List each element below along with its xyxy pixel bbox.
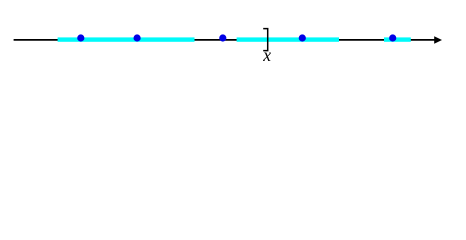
point dot 2 — [134, 34, 141, 41]
right arrowhead — [434, 36, 442, 43]
number line axis — [14, 39, 436, 41]
right bracket ] — [263, 29, 268, 51]
cyan interval segment 3 — [384, 37, 411, 41]
point dot 3 — [219, 34, 226, 41]
cyan interval segment 1 — [58, 37, 195, 41]
cyan interval segment 2 — [237, 37, 339, 41]
point dot 4 — [299, 34, 306, 41]
point dot 1 — [77, 34, 84, 41]
svg-text:x: x — [262, 45, 271, 65]
point dot 5 — [389, 34, 396, 41]
